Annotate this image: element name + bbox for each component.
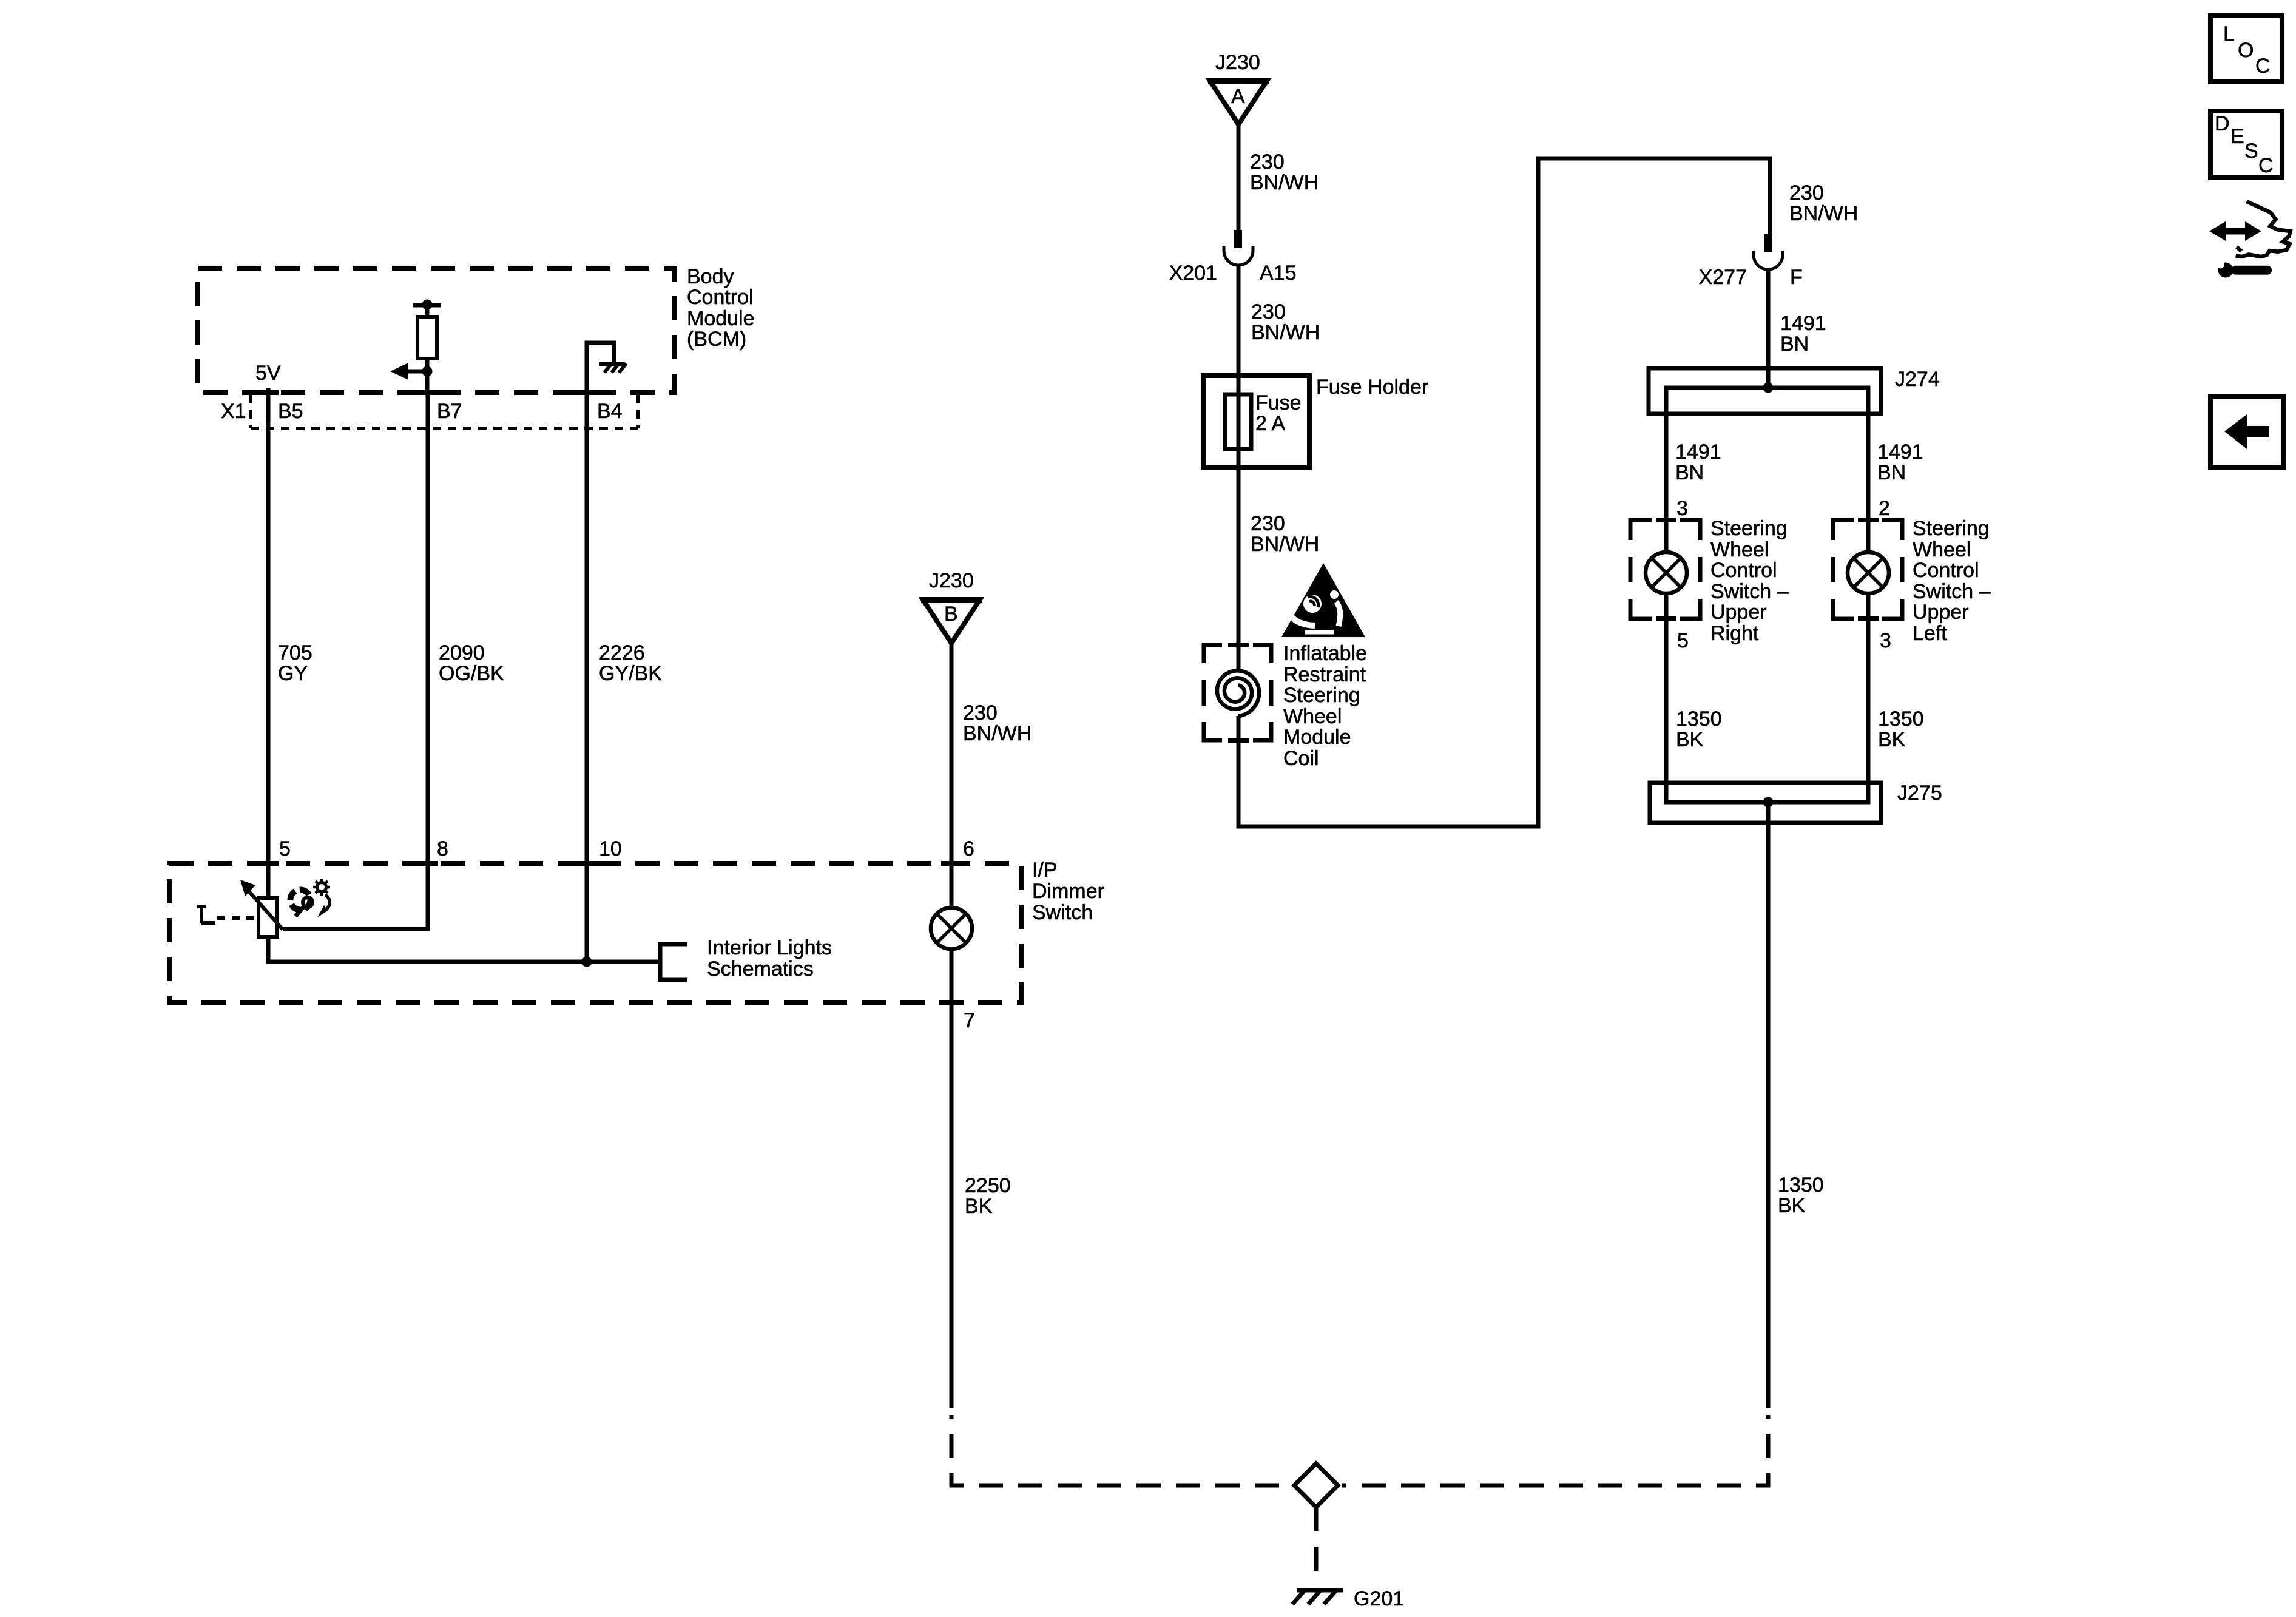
svg-text:BK: BK (1778, 1194, 1806, 1217)
svg-text:230: 230 (1251, 512, 1285, 535)
svg-text:BN/WH: BN/WH (1250, 171, 1319, 194)
svg-text:230: 230 (963, 701, 998, 724)
svg-text:Left: Left (1913, 622, 1947, 645)
junction dot on bar (422, 300, 433, 310)
svg-text:C: C (2258, 154, 2274, 177)
I/P Dimmer Switch label (1032, 859, 1104, 924)
Body Control Module (BCM) dashed box (198, 268, 675, 393)
wire lamp to pin 7 (950, 949, 954, 1002)
svg-text:Right: Right (1710, 622, 1759, 645)
svg-text:230: 230 (1789, 181, 1824, 204)
svg-text:BN: BN (1780, 333, 1809, 356)
label Interior Lights Schematics (707, 936, 832, 981)
svg-text:Inflatable: Inflatable (1283, 642, 1367, 665)
wire label 2090 OG/BK (439, 641, 504, 685)
connector X277 male terminal (1764, 234, 1772, 252)
node bar above resistor (413, 303, 441, 308)
BCM internal ground symbol (599, 363, 626, 373)
wire X277 to J274 (1766, 269, 1771, 388)
svg-text:2250: 2250 (965, 1174, 1011, 1197)
svg-text:705: 705 (278, 641, 312, 664)
wire label 1491 BN (right branch) (1877, 441, 1923, 484)
svg-text:3: 3 (1880, 629, 1891, 652)
svg-text:BK: BK (1676, 728, 1704, 751)
svg-text:1350: 1350 (1778, 1173, 1824, 1197)
svg-text:Body: Body (687, 265, 734, 288)
svg-text:Control: Control (1913, 559, 1979, 582)
svg-text:Fuse Holder: Fuse Holder (1316, 376, 1428, 399)
wire label 1350 BK (to ground) (1778, 1173, 1824, 1217)
svg-text:OG/BK: OG/BK (439, 662, 504, 685)
svg-text:Steering: Steering (1913, 517, 1990, 540)
svg-text:Interior Lights: Interior Lights (707, 936, 832, 959)
wire stub bar to resistor (425, 305, 430, 317)
svg-text:Upper: Upper (1710, 601, 1767, 624)
wire label 230 BN/WH (above X201) (1250, 150, 1319, 194)
X1 connector strip (fine dashed) (251, 395, 638, 428)
wiper left contact mark (197, 906, 215, 923)
wire J275 to ground run (1766, 802, 1771, 1408)
svg-text:GY/BK: GY/BK (599, 662, 662, 685)
splice pack J275 outer box (1650, 783, 1881, 823)
wire label 1491 BN (X277 to J274) (1780, 312, 1826, 356)
junction dot at B7 node (422, 366, 433, 377)
fuse element (1225, 394, 1251, 449)
wire label 1491 BN (left branch) (1675, 441, 1721, 484)
svg-text:8: 8 (437, 837, 448, 860)
pin tick 6 (941, 861, 962, 866)
svg-text:Switch –: Switch – (1710, 580, 1789, 603)
switch upper left label (1913, 517, 1991, 645)
wire X201 to fuse holder (1237, 265, 1241, 376)
splice pack J274 bus (1666, 388, 1868, 552)
pin tick 10 (576, 861, 597, 866)
steering wheel control switch upper left dashed box (1833, 520, 1902, 619)
pin tick B5 (258, 390, 279, 395)
svg-text:Module: Module (1283, 726, 1351, 749)
svg-text:BN/WH: BN/WH (1251, 533, 1319, 556)
pin tick 8 (417, 861, 438, 866)
svg-text:O: O (2238, 39, 2254, 62)
dashed drop to G201 (1314, 1507, 1319, 1585)
potentiometer wiper arrow (245, 887, 283, 930)
pin tick 7 (941, 1000, 962, 1005)
off-page bracket interior lights (660, 944, 687, 980)
svg-text:2090: 2090 (439, 641, 485, 664)
svg-text:Steering: Steering (1710, 517, 1788, 540)
splice diamond (1294, 1463, 1338, 1507)
svg-text:A15: A15 (1260, 262, 1297, 285)
svg-text:A: A (1231, 85, 1245, 108)
junction dot wire 10 (582, 957, 592, 967)
dimmer gauge icon (291, 879, 331, 917)
svg-text:B5: B5 (278, 400, 303, 423)
svg-text:Upper: Upper (1913, 601, 1969, 624)
svg-text:3: 3 (1676, 497, 1688, 520)
svg-text:Switch –: Switch – (1913, 580, 1991, 603)
svg-text:Wheel: Wheel (1283, 705, 1342, 728)
DESC box (2210, 111, 2282, 178)
wire label 705 GY (278, 641, 312, 685)
svg-text:BN: BN (1877, 461, 1906, 484)
resistor (BCM pull-up) (417, 317, 437, 359)
svg-text:2: 2 (1879, 497, 1890, 520)
wire 1350 BK right branch (1866, 593, 1871, 802)
svg-text:D: D (2215, 112, 2230, 135)
pin tick switch left top (1858, 518, 1879, 522)
svg-text:1491: 1491 (1877, 441, 1923, 464)
wire fuse to coil (1237, 468, 1241, 670)
Fuse Holder box (1203, 376, 1309, 468)
svg-text:B7: B7 (437, 400, 462, 423)
dimmer illumination lamp (931, 908, 972, 949)
coil label (1283, 642, 1367, 770)
svg-text:5: 5 (279, 837, 291, 860)
svg-text:230: 230 (1250, 150, 1285, 174)
svg-text:J274: J274 (1895, 368, 1940, 391)
wire 2090 OG/BK (B7 to dimmer pin 8) (426, 393, 430, 864)
dashed link to wiper contact (217, 916, 260, 920)
svg-text:1350: 1350 (1878, 707, 1924, 731)
svg-text:BK: BK (965, 1195, 993, 1218)
svg-text:L: L (2223, 22, 2235, 46)
wire label 230 BN/WH (lamp feed) (963, 701, 1032, 745)
svg-text:GY: GY (278, 662, 308, 685)
BCM label (687, 265, 755, 351)
svg-text:BN/WH: BN/WH (963, 722, 1032, 745)
pin tick switch right bottom (1656, 616, 1676, 621)
svg-text:2226: 2226 (599, 641, 645, 664)
svg-text:J230: J230 (929, 569, 974, 592)
junction dot J274 (1763, 383, 1774, 393)
svg-text:E: E (2230, 125, 2244, 148)
connector X277 female cup (1754, 251, 1783, 269)
connector X201 female cup (1224, 246, 1253, 265)
svg-text:5: 5 (1677, 629, 1689, 652)
svg-text:X201: X201 (1169, 262, 1217, 285)
wire through fuse (1237, 376, 1241, 468)
svg-text:J230: J230 (1215, 51, 1260, 74)
wire coil to loop corner (1238, 158, 1770, 826)
svg-text:BK: BK (1878, 728, 1906, 751)
lamp upper right switch (1646, 552, 1687, 593)
harness routing icon (double arrow, contour, wrench) (2209, 201, 2291, 278)
splice pack J274 outer box (1649, 368, 1881, 414)
wire label 2250 BK (965, 1174, 1011, 1218)
svg-text:Coil: Coil (1283, 747, 1319, 770)
svg-text:Control: Control (687, 286, 754, 309)
svg-text:Steering: Steering (1283, 684, 1360, 707)
wire pot bottom to interior lights (268, 937, 660, 962)
svg-text:X1: X1 (221, 400, 246, 423)
dashed ground run right (1342, 1415, 1768, 1485)
pin tick B7 (417, 390, 438, 395)
wire J230 A to X201 (1237, 124, 1241, 230)
wire 8 to wiper (283, 864, 428, 929)
wire label 1350 BK (right) (1878, 707, 1924, 751)
svg-text:G201: G201 (1354, 1587, 1404, 1610)
svg-text:1491: 1491 (1780, 312, 1826, 335)
svg-text:5V: 5V (255, 362, 281, 385)
svg-text:Schematics: Schematics (707, 957, 814, 981)
wire resistor to junction (425, 359, 430, 393)
svg-text:S: S (2244, 140, 2258, 163)
svg-text:230: 230 (1251, 300, 1286, 323)
svg-text:BN: BN (1675, 461, 1704, 484)
wire 10 inside dimmer (585, 864, 589, 962)
svg-text:Dimmer: Dimmer (1032, 880, 1104, 903)
ground branch wire inside BCM (587, 343, 614, 393)
svg-text:10: 10 (599, 837, 622, 860)
SRS coil dashed box (1204, 645, 1271, 740)
fuse value label (1255, 391, 1302, 435)
airbag warning triangle icon (1281, 563, 1365, 637)
pin tick switch right top (1656, 518, 1676, 522)
svg-text:(BCM): (BCM) (687, 328, 746, 351)
svg-text:1350: 1350 (1676, 707, 1722, 731)
wire label 230 BN/WH (above airbag icon) (1251, 512, 1319, 556)
svg-text:B4: B4 (597, 400, 623, 423)
splice pack J275 bus (1666, 593, 1868, 802)
svg-text:I/P: I/P (1032, 859, 1058, 882)
wire label 1350 BK (left) (1676, 707, 1722, 751)
pin tick switch left bottom (1858, 616, 1879, 621)
switch upper right label (1710, 517, 1789, 645)
svg-text:BN/WH: BN/WH (1789, 202, 1858, 225)
svg-text:B: B (944, 603, 958, 626)
LOC box (2210, 16, 2282, 82)
junction dot J275 (1763, 797, 1774, 808)
wire J230 B to lamp (950, 643, 954, 908)
svg-text:Control: Control (1710, 559, 1777, 582)
wire label 2226 GY/BK (599, 641, 662, 685)
wire pin5 to potentiometer (266, 864, 271, 898)
I/P Dimmer Switch dashed box (169, 863, 1021, 1002)
svg-text:1491: 1491 (1675, 441, 1721, 464)
clockspring coil spiral (1217, 670, 1259, 716)
pin tick B4 (576, 390, 597, 395)
pin tick coil top (1228, 643, 1249, 647)
svg-text:6: 6 (963, 837, 974, 860)
svg-text:X277: X277 (1699, 266, 1747, 289)
signal arrow (to BCM input) (407, 370, 427, 374)
wire 1350 BK left branch (1664, 593, 1669, 802)
svg-text:Wheel: Wheel (1913, 538, 1971, 561)
connector J230 B triangle (923, 599, 980, 643)
connector J230 A triangle (1210, 81, 1267, 124)
svg-text:Restraint: Restraint (1283, 663, 1366, 686)
svg-text:Fuse: Fuse (1255, 391, 1302, 414)
svg-text:F: F (1790, 266, 1803, 289)
wire 705 GY (B5 to dimmer pin 5) (266, 388, 271, 864)
connector X201 male terminal (1234, 230, 1242, 248)
lamp upper left switch (1848, 552, 1889, 593)
ground symbol G201 (1292, 1589, 1343, 1604)
wire label 230 BN/WH (above fuse) (1251, 300, 1320, 344)
potentiometer body (258, 898, 277, 937)
pin tick 5 (258, 861, 279, 866)
dashed ground run left (951, 1415, 1291, 1485)
steering wheel control switch upper right dashed box (1630, 520, 1700, 619)
svg-text:2 A: 2 A (1255, 412, 1285, 435)
wire 2250 BK below dimmer (950, 1002, 954, 1408)
svg-text:7: 7 (964, 1009, 975, 1032)
wire label 230 BN/WH (to X277) (1789, 181, 1858, 225)
wire 2226 GY/BK (B4 to dimmer pin 10) (585, 393, 589, 864)
svg-text:J275: J275 (1897, 781, 1942, 805)
svg-text:C: C (2255, 55, 2271, 78)
svg-text:Switch: Switch (1032, 901, 1093, 924)
back arrow box (2210, 396, 2283, 468)
svg-text:BN/WH: BN/WH (1251, 321, 1320, 344)
svg-text:Module: Module (687, 307, 755, 330)
svg-text:Wheel: Wheel (1710, 538, 1769, 561)
pin tick coil bottom (1228, 738, 1249, 743)
